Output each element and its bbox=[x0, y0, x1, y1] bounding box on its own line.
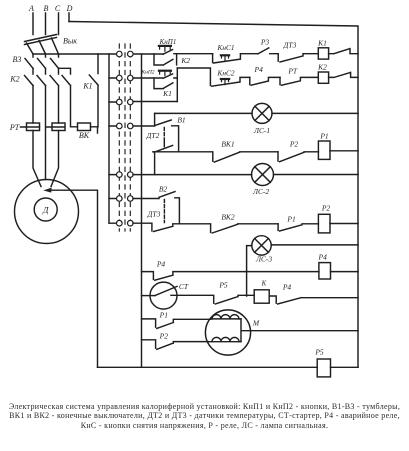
svg-text:Р3: Р3 bbox=[260, 38, 270, 47]
svg-text:РТ: РТ bbox=[9, 123, 20, 132]
svg-text:СТ: СТ bbox=[179, 282, 189, 291]
svg-text:К2: К2 bbox=[180, 56, 190, 65]
svg-text:В2: В2 bbox=[159, 185, 168, 194]
svg-text:КнС2: КнС2 bbox=[217, 69, 235, 78]
svg-text:B: B bbox=[44, 4, 49, 13]
svg-text:Р2: Р2 bbox=[159, 332, 169, 341]
svg-text:Р1: Р1 bbox=[159, 311, 168, 320]
svg-text:К1: К1 bbox=[82, 82, 92, 91]
svg-text:К1: К1 bbox=[317, 39, 327, 48]
svg-text:Р4: Р4 bbox=[156, 260, 166, 269]
svg-text:A: A bbox=[28, 4, 34, 13]
svg-text:К: К bbox=[261, 280, 267, 288]
svg-text:ДТ3: ДТ3 bbox=[147, 210, 161, 219]
svg-text:ВК1: ВК1 bbox=[221, 140, 234, 149]
svg-text:К2: К2 bbox=[317, 63, 327, 72]
svg-text:В3: В3 bbox=[13, 55, 22, 64]
svg-text:Р1: Р1 bbox=[286, 215, 295, 224]
svg-text:В1: В1 bbox=[177, 116, 185, 125]
svg-text:КнП2: КнП2 bbox=[140, 70, 154, 76]
svg-text:РТ: РТ bbox=[287, 67, 298, 76]
svg-text:М: М bbox=[252, 319, 260, 328]
svg-text:Р4: Р4 bbox=[282, 283, 292, 292]
svg-text:К2: К2 bbox=[9, 75, 19, 84]
svg-text:Р1: Р1 bbox=[319, 132, 328, 141]
svg-text:Р2: Р2 bbox=[321, 204, 331, 213]
svg-text:КнП1: КнП1 bbox=[159, 38, 177, 46]
svg-text:ВК2: ВК2 bbox=[221, 213, 235, 222]
svg-text:Р2: Р2 bbox=[289, 140, 299, 149]
svg-text:Д: Д bbox=[42, 205, 49, 215]
svg-text:D: D bbox=[66, 4, 73, 13]
svg-text:Р4: Р4 bbox=[318, 253, 328, 262]
svg-text:Р4: Р4 bbox=[254, 65, 264, 74]
svg-text:КнС1: КнС1 bbox=[217, 43, 235, 52]
svg-text:ЛС-3: ЛС-3 bbox=[255, 255, 272, 264]
svg-text:ДТ3: ДТ3 bbox=[283, 41, 297, 50]
svg-text:Р5: Р5 bbox=[314, 348, 324, 357]
svg-text:ДТ2: ДТ2 bbox=[146, 131, 160, 140]
svg-text:ВК: ВК bbox=[79, 131, 90, 140]
svg-text:ЛС-2: ЛС-2 bbox=[252, 187, 269, 196]
svg-text:Р5: Р5 bbox=[218, 281, 228, 290]
svg-text:ЛС-1: ЛС-1 bbox=[253, 126, 270, 135]
svg-text:К1: К1 bbox=[162, 89, 172, 98]
svg-text:Вык: Вык bbox=[63, 37, 77, 46]
svg-text:C: C bbox=[55, 4, 61, 13]
